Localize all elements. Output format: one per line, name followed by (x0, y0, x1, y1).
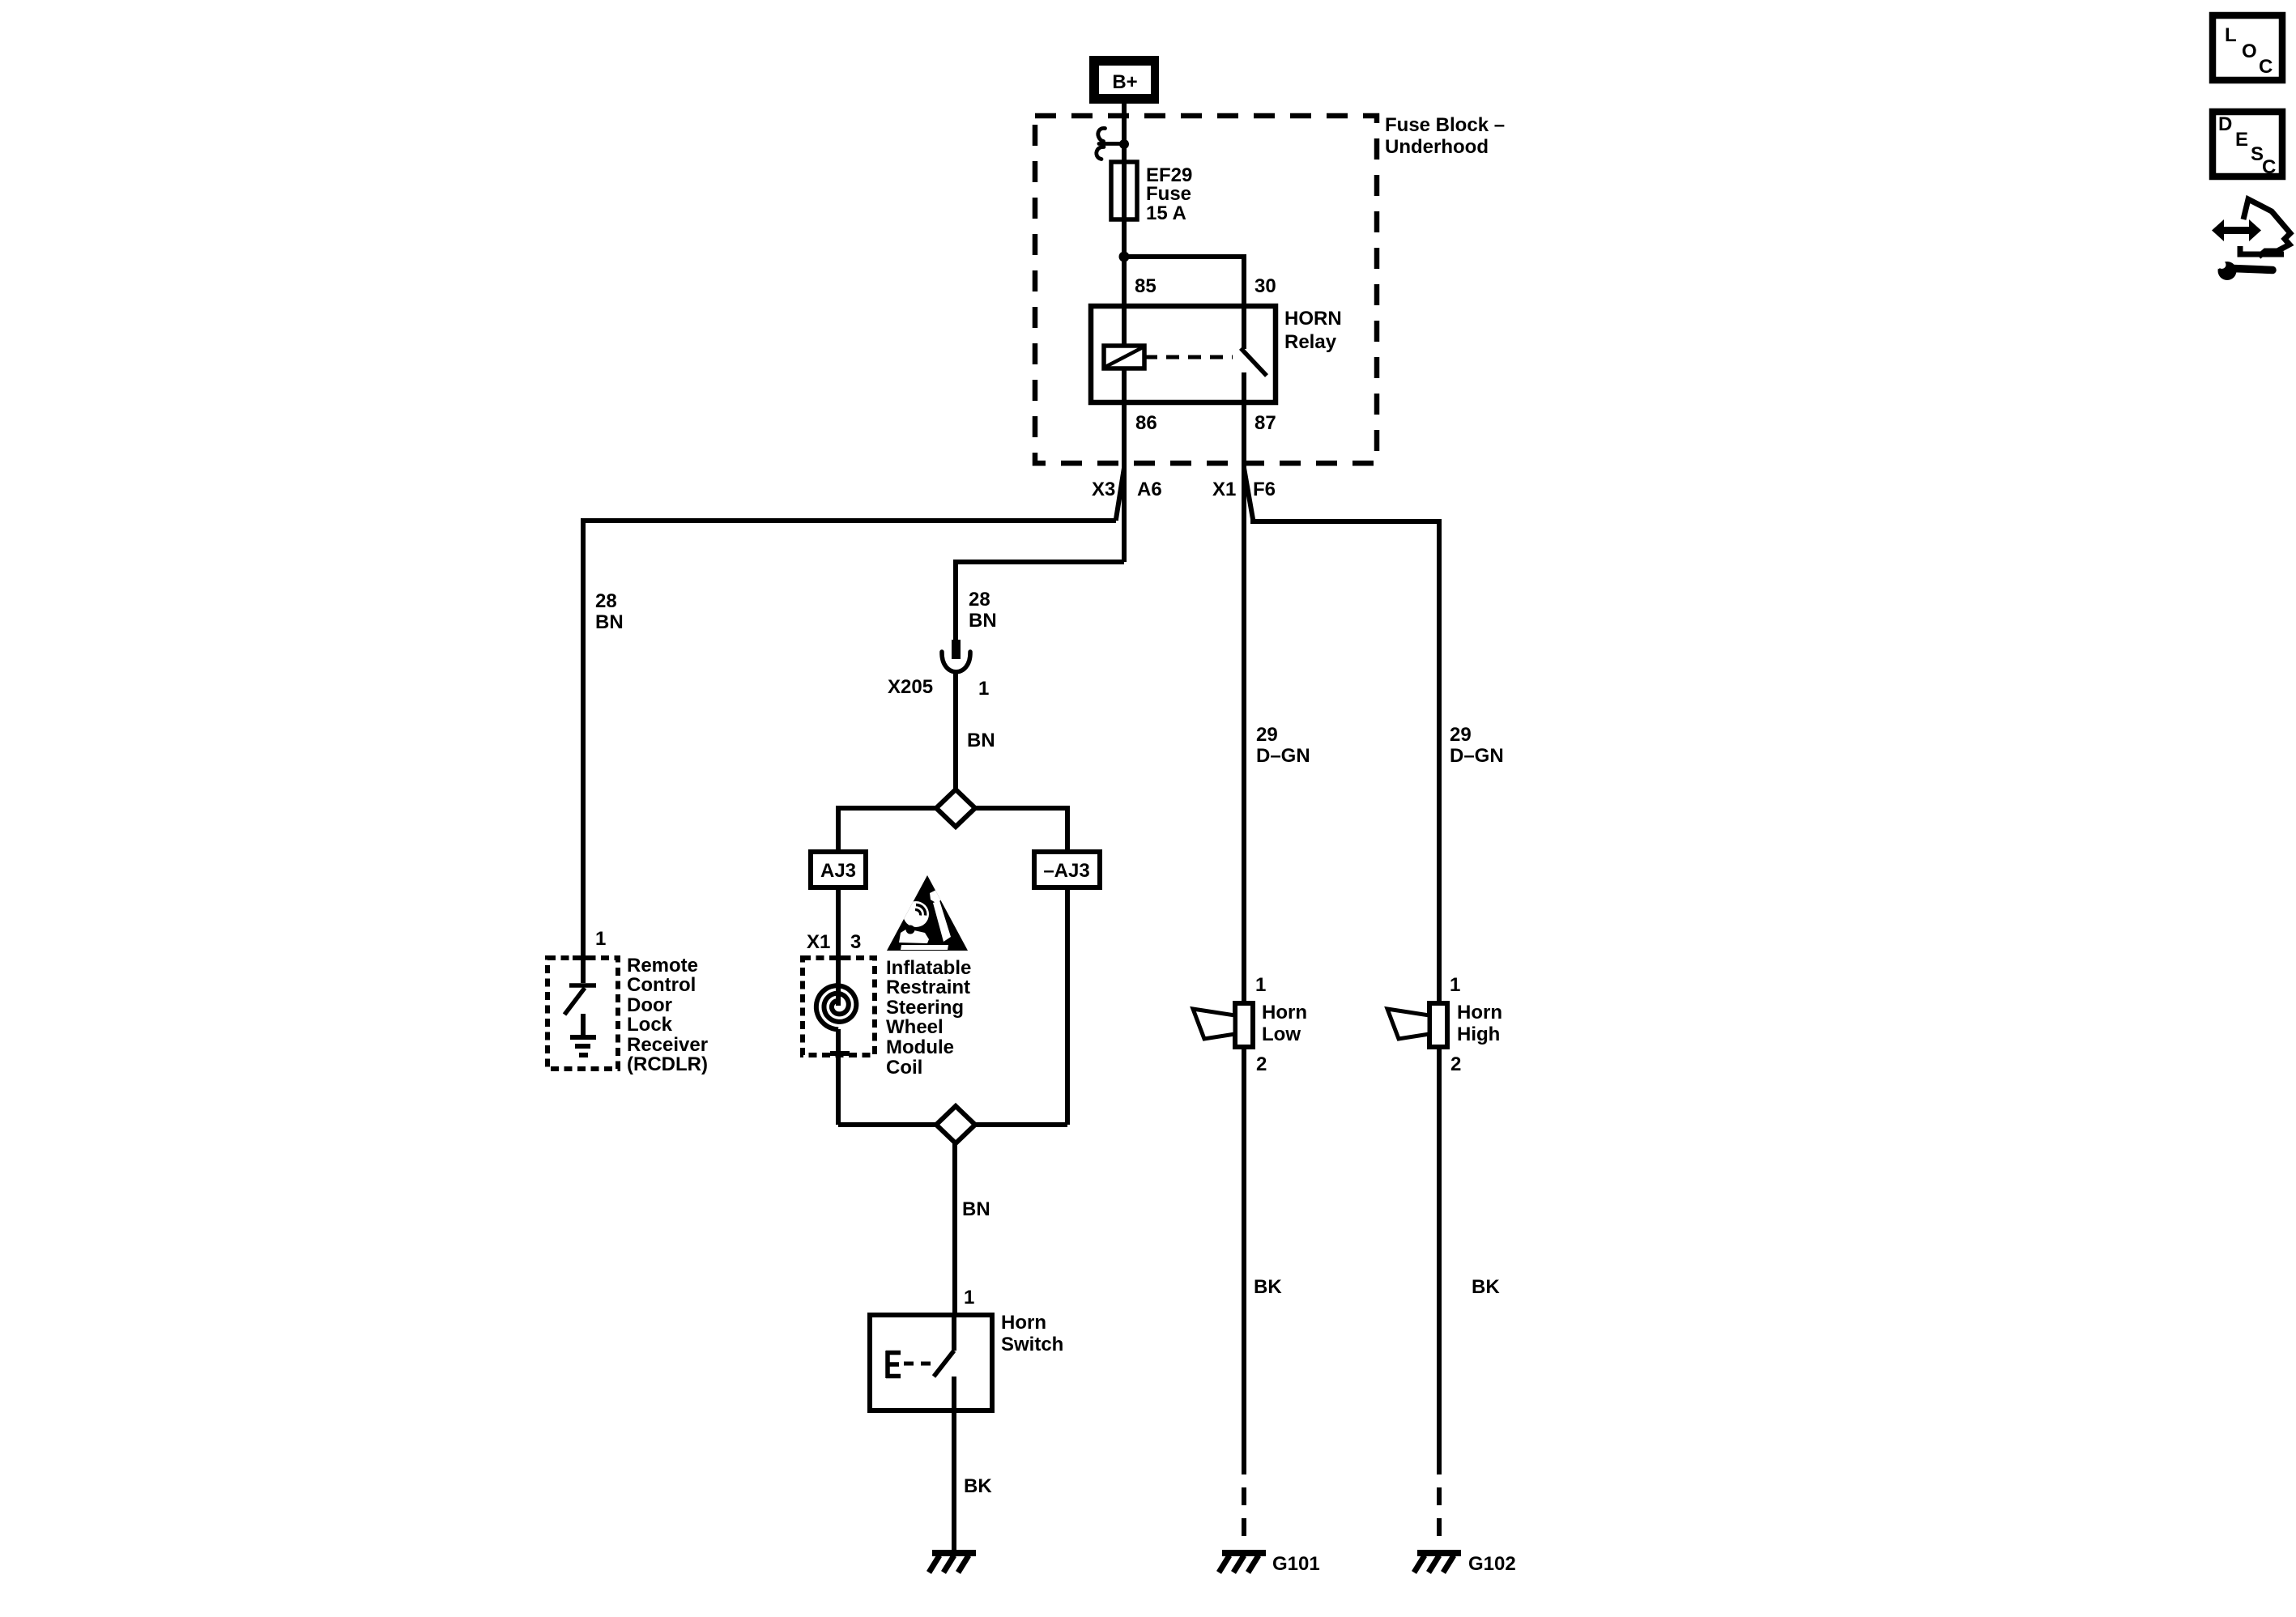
horn switch internal top wire (952, 1315, 956, 1351)
svg-text:Receiver: Receiver (627, 1034, 708, 1056)
wire branch left from diamond (838, 808, 936, 852)
wire jog to X205 column (956, 562, 1124, 640)
junction dot at clip (1119, 139, 1129, 149)
relay pin 87 stub (1242, 372, 1246, 402)
svg-text:B+: B+ (1112, 71, 1137, 93)
svg-text:Horn: Horn (1001, 1312, 1046, 1334)
service info icon (arrow, part outline, wrench) (2212, 199, 2290, 280)
horn switch blade (934, 1351, 954, 1377)
relay coil winding wire 85-86 through box (1122, 306, 1127, 402)
horn switch bottom wire to ground (952, 1377, 956, 1551)
svg-text:E: E (2235, 129, 2248, 151)
svg-text:G101: G101 (1272, 1553, 1320, 1575)
connector X205 pin (952, 640, 961, 659)
wire branch to relay pin 30 (1124, 257, 1244, 306)
svg-text:Low: Low (1262, 1023, 1301, 1045)
svg-text:1: 1 (964, 1287, 974, 1308)
svg-text:Fuse: Fuse (1146, 183, 1191, 205)
svg-text:L: L (2225, 24, 2237, 46)
RCDLR earth ground (570, 1014, 596, 1055)
wire horn low to ground dashed end (1242, 1474, 1246, 1548)
svg-text:15 A: 15 A (1146, 202, 1186, 224)
svg-text:86: 86 (1135, 412, 1157, 434)
svg-text:D–GN: D–GN (1256, 745, 1310, 767)
svg-text:1: 1 (1450, 974, 1460, 996)
RCDLR internal wire (581, 958, 586, 983)
svg-text:Steering: Steering (886, 997, 964, 1019)
SRS warning triangle (887, 875, 968, 951)
clockspring coil dashed box (803, 958, 875, 1055)
svg-text:C: C (2262, 156, 2276, 178)
horn high symbol (1387, 1003, 1447, 1047)
chassis ground horn switch (929, 1553, 976, 1572)
horn switch box (870, 1315, 992, 1411)
RCDLR switch blade (564, 988, 585, 1015)
svg-text:29: 29 (1450, 724, 1472, 746)
svg-text:Remote: Remote (627, 955, 698, 977)
svg-text:X1: X1 (807, 931, 830, 953)
svg-text:85: 85 (1135, 275, 1157, 297)
DESC icon box (2213, 112, 2282, 178)
wire slant branch to RCDLR horizontal (1116, 468, 1124, 521)
svg-text:D–GN: D–GN (1450, 745, 1504, 767)
relay pin 30 stub (1242, 306, 1246, 349)
svg-text:G102: G102 (1468, 1553, 1516, 1575)
relay actuation dashed link (1144, 355, 1233, 360)
svg-text:X3: X3 (1092, 479, 1115, 500)
fuse EF29 15A (1111, 162, 1137, 219)
wire slant branch to horn high feed (1244, 468, 1439, 1003)
svg-text:–AJ3: –AJ3 (1043, 860, 1089, 882)
svg-text:Module: Module (886, 1036, 954, 1058)
RCDLR pin tick (573, 955, 594, 960)
svg-text:Switch: Switch (1001, 1334, 1063, 1355)
svg-text:3: 3 (850, 931, 861, 953)
svg-text:Fuse Block –: Fuse Block – (1385, 114, 1505, 136)
svg-text:28: 28 (969, 589, 990, 611)
RCDLR dashed box (547, 958, 618, 1069)
wire bottom splice to horn switch (952, 1143, 957, 1315)
svg-text:A6: A6 (1137, 479, 1162, 500)
svg-text:Inflatable: Inflatable (886, 957, 971, 979)
svg-text:D: D (2218, 113, 2232, 135)
svg-text:Horn: Horn (1262, 1002, 1307, 1023)
svg-text:BK: BK (1472, 1276, 1500, 1298)
svg-text:BN: BN (967, 730, 995, 751)
svg-text:2: 2 (1256, 1053, 1267, 1075)
splice diamond top (936, 789, 975, 827)
coil entry wire (836, 958, 841, 1006)
svg-text:30: 30 (1254, 275, 1276, 297)
wire relay 86 down through connector (1122, 402, 1127, 562)
splice diamond bottom (838, 1122, 936, 1127)
junction dot below fuse (1119, 252, 1130, 262)
svg-text:BN: BN (962, 1198, 990, 1220)
terminal box -AJ3 (1034, 852, 1100, 887)
svg-text:AJ3: AJ3 (820, 860, 856, 882)
svg-text:87: 87 (1254, 412, 1276, 434)
svg-text:O: O (2242, 40, 2257, 62)
svg-text:1: 1 (1255, 974, 1266, 996)
svg-text:BN: BN (595, 611, 624, 633)
svg-text:Horn: Horn (1457, 1002, 1502, 1023)
svg-text:Restraint: Restraint (886, 977, 970, 998)
relay switch blade (1241, 348, 1267, 376)
wire horn high lower segment (1437, 1047, 1442, 1474)
power node B+ (1089, 56, 1159, 104)
wire B+ to fuse and relay pin 85 (vertical main feed) (1122, 104, 1127, 306)
svg-text:HORN: HORN (1284, 308, 1342, 330)
LOC icon box (2213, 15, 2282, 80)
svg-text:Underhood: Underhood (1385, 136, 1489, 158)
wire relay 87 down to horn low (1242, 402, 1246, 1003)
horn switch dashed actuation (904, 1362, 933, 1366)
svg-text:X205: X205 (888, 676, 933, 698)
svg-text:F6: F6 (1253, 479, 1276, 500)
svg-text:Relay: Relay (1284, 331, 1337, 353)
wire branch right from diamond (975, 808, 1067, 852)
coil exit wire (836, 1029, 841, 1125)
horn switch E actuator (886, 1351, 901, 1378)
relay coil element (1104, 346, 1144, 368)
wire X205 to splice diamond (953, 672, 958, 790)
chassis ground G101 (1219, 1553, 1266, 1572)
fuse block underhood dashed box (1035, 116, 1377, 463)
terminal box AJ3 (811, 852, 866, 887)
horn low symbol (1193, 1003, 1253, 1047)
svg-text:2: 2 (1450, 1053, 1461, 1075)
svg-text:1: 1 (978, 678, 989, 700)
svg-text:BK: BK (1254, 1276, 1282, 1298)
svg-text:Coil: Coil (886, 1057, 922, 1079)
chassis ground G102 (1414, 1553, 1461, 1572)
coil pin tick top (830, 955, 850, 960)
clip symbol (1097, 128, 1124, 159)
clockspring spiral (816, 985, 856, 1029)
svg-text:28: 28 (595, 590, 617, 612)
coil pin tick bottom (830, 1051, 850, 1056)
svg-text:BK: BK (964, 1475, 992, 1497)
svg-text:Lock: Lock (627, 1014, 673, 1036)
svg-text:BN: BN (969, 610, 997, 632)
svg-text:Control: Control (627, 974, 696, 996)
connector X205 socket (942, 652, 970, 672)
wire -AJ3 down to bottom splice (1065, 887, 1070, 1125)
svg-text:High: High (1457, 1023, 1500, 1045)
wire horn low lower segment (1242, 1047, 1246, 1474)
svg-text:Wheel: Wheel (886, 1016, 944, 1038)
svg-text:29: 29 (1256, 724, 1278, 746)
svg-text:(RCDLR): (RCDLR) (627, 1053, 708, 1075)
svg-text:X1: X1 (1212, 479, 1236, 500)
svg-text:1: 1 (595, 928, 606, 950)
wire horn high to ground dashed end (1437, 1474, 1442, 1548)
svg-text:C: C (2259, 56, 2273, 78)
RCDLR switch contact (569, 983, 596, 988)
svg-text:Door: Door (627, 994, 672, 1016)
relay HORN box (1091, 306, 1276, 402)
wire AJ3 to coil box (836, 887, 841, 958)
wire long horizontal to RCDLR (583, 521, 1116, 958)
